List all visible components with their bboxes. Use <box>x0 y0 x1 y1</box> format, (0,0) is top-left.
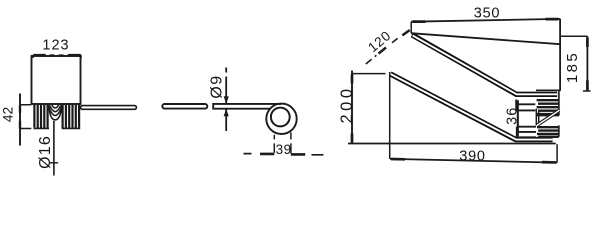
right boundary vertical <box>559 19 561 91</box>
upper coil block bars <box>537 100 559 114</box>
dim 185 top tick <box>561 35 588 37</box>
dim 200 line <box>351 71 353 144</box>
coil crossing wire <box>538 110 560 125</box>
svg-text:39: 39 <box>276 142 292 157</box>
coil top edge <box>536 89 561 91</box>
dim O16 tick <box>50 162 59 164</box>
dim O9 line <box>225 68 227 132</box>
left extension vertical <box>389 72 391 159</box>
dim 120 arrows <box>379 30 410 53</box>
dim 42 ticks <box>20 105 31 129</box>
dim 36 line <box>517 100 519 136</box>
dim 39 arrows <box>260 153 305 156</box>
dim 390 arrows <box>391 159 556 162</box>
coil centre U-notch arcs <box>49 105 62 120</box>
dim 185 line <box>586 36 588 91</box>
dim 39 extension lines <box>274 133 291 154</box>
upper coil block right edge <box>558 90 560 115</box>
svg-text:200: 200 <box>338 85 356 123</box>
dim 120 line dash-dot <box>366 38 398 64</box>
svg-text:42: 42 <box>0 107 16 123</box>
right extension vertical 390 <box>556 144 558 162</box>
dim 42 line <box>19 94 21 146</box>
svg-text:Ø16: Ø16 <box>37 135 54 169</box>
coil block bottom edges <box>34 127 81 129</box>
bottom baseline <box>348 143 556 145</box>
dim 185 arrows <box>586 38 589 91</box>
dim 185 bottom tick <box>583 90 591 92</box>
svg-text:36: 36 <box>505 107 521 125</box>
upper coil block bottom edge <box>537 115 559 117</box>
svg-text:350: 350 <box>474 6 501 22</box>
dim O9 arrows <box>224 96 229 116</box>
upper coil end winding bars <box>516 100 535 111</box>
upper prong wire <box>412 35 557 95</box>
bridge rectangle front view <box>32 56 81 104</box>
svg-text:390: 390 <box>459 148 486 164</box>
svg-text:Ø9: Ø9 <box>209 74 226 98</box>
top boundary line <box>411 33 560 44</box>
coil loop side view inner <box>271 108 290 127</box>
dim 390 line <box>390 159 557 163</box>
dim 42 arrows <box>19 105 21 128</box>
lower prong wire <box>390 74 552 140</box>
svg-text:185: 185 <box>564 51 581 83</box>
svg-text:123: 123 <box>42 38 69 54</box>
dim 200 arrows <box>351 75 354 143</box>
dim 350 left hook <box>410 22 412 34</box>
lower coil block right edge <box>558 125 560 136</box>
main bar side view <box>213 104 281 109</box>
coil bridge verticals <box>536 109 538 126</box>
dim 350 line <box>411 19 560 22</box>
coil loop side view outer <box>266 104 296 134</box>
dim 350 arrows <box>413 19 559 22</box>
dim 123 arrows <box>33 54 81 57</box>
lower coil end winding bars <box>517 127 536 138</box>
dim 200 top tick <box>352 73 386 75</box>
dim O16 extension line <box>53 121 55 176</box>
dim 39 line <box>244 154 324 155</box>
dim 123 line <box>33 55 81 58</box>
tine arm front view <box>81 106 137 110</box>
coil block front: hatching <box>34 105 79 128</box>
tip bar side view <box>162 104 207 109</box>
lower coil block bars <box>537 127 559 137</box>
